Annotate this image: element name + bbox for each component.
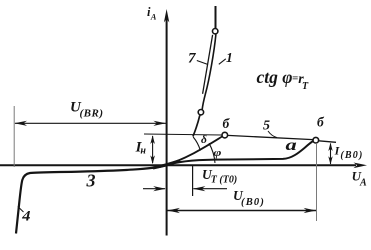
svg-text:3: 3 bbox=[86, 171, 96, 191]
I_B0 level line bbox=[319, 141, 336, 143]
svg-text:A: A bbox=[150, 12, 157, 22]
reverse branch 3 bbox=[16, 165, 167, 233]
point b-right circle bbox=[313, 137, 319, 143]
negative-resistance line 5 bbox=[228, 135, 313, 139]
point circle upper bbox=[213, 29, 218, 34]
I_H dimension arrow bbox=[150, 135, 155, 164]
svg-text:(B0): (B0) bbox=[340, 150, 363, 161]
svg-text:7: 7 bbox=[188, 51, 196, 67]
svg-text:A: A bbox=[359, 178, 367, 189]
linearized on-state line 7 bbox=[203, 35, 213, 94]
x-axis bbox=[0, 163, 367, 169]
svg-text:4: 4 bbox=[21, 208, 30, 224]
angle arc delta bbox=[193, 137, 200, 151]
on-state curve 1 bbox=[215, 6, 217, 28]
leader for label 1 bbox=[219, 59, 226, 65]
svg-text:н: н bbox=[140, 145, 146, 156]
svg-text:Т: Т bbox=[302, 81, 309, 92]
svg-text:ctg φ: ctg φ bbox=[257, 67, 293, 87]
leader for label 4 bbox=[18, 207, 24, 213]
svg-text:Т (Т0): Т (Т0) bbox=[211, 174, 237, 185]
leader for label 5 bbox=[268, 131, 277, 138]
U_T(T0) outside arrows bbox=[143, 186, 227, 191]
U_T(T0) tick bbox=[192, 165, 194, 196]
I_B0 dimension arrow bbox=[328, 143, 332, 165]
point b-left circle bbox=[222, 132, 228, 138]
svg-text:(В0): (В0) bbox=[241, 197, 265, 208]
svg-text:1: 1 bbox=[226, 50, 233, 65]
point circle mid bbox=[198, 110, 203, 115]
svg-text:δ: δ bbox=[201, 134, 207, 146]
U_BR left tick bbox=[13, 106, 15, 167]
y-axis bbox=[164, 9, 169, 236]
leader for label 7 bbox=[197, 61, 208, 65]
svg-text:φ: φ bbox=[213, 146, 221, 158]
angle arc phi bbox=[209, 143, 215, 163]
origin thickening bbox=[153, 161, 180, 168]
gate-triggered branch from origin to point b-left bbox=[167, 136, 223, 165]
U_B0 dimension line bbox=[167, 208, 316, 213]
off-state branch a bbox=[167, 141, 314, 165]
I_H level line bbox=[144, 134, 222, 135]
U_B0 right tick bbox=[316, 144, 318, 221]
svg-text:(BR): (BR) bbox=[80, 108, 104, 120]
U_BR dimension line bbox=[14, 121, 166, 126]
